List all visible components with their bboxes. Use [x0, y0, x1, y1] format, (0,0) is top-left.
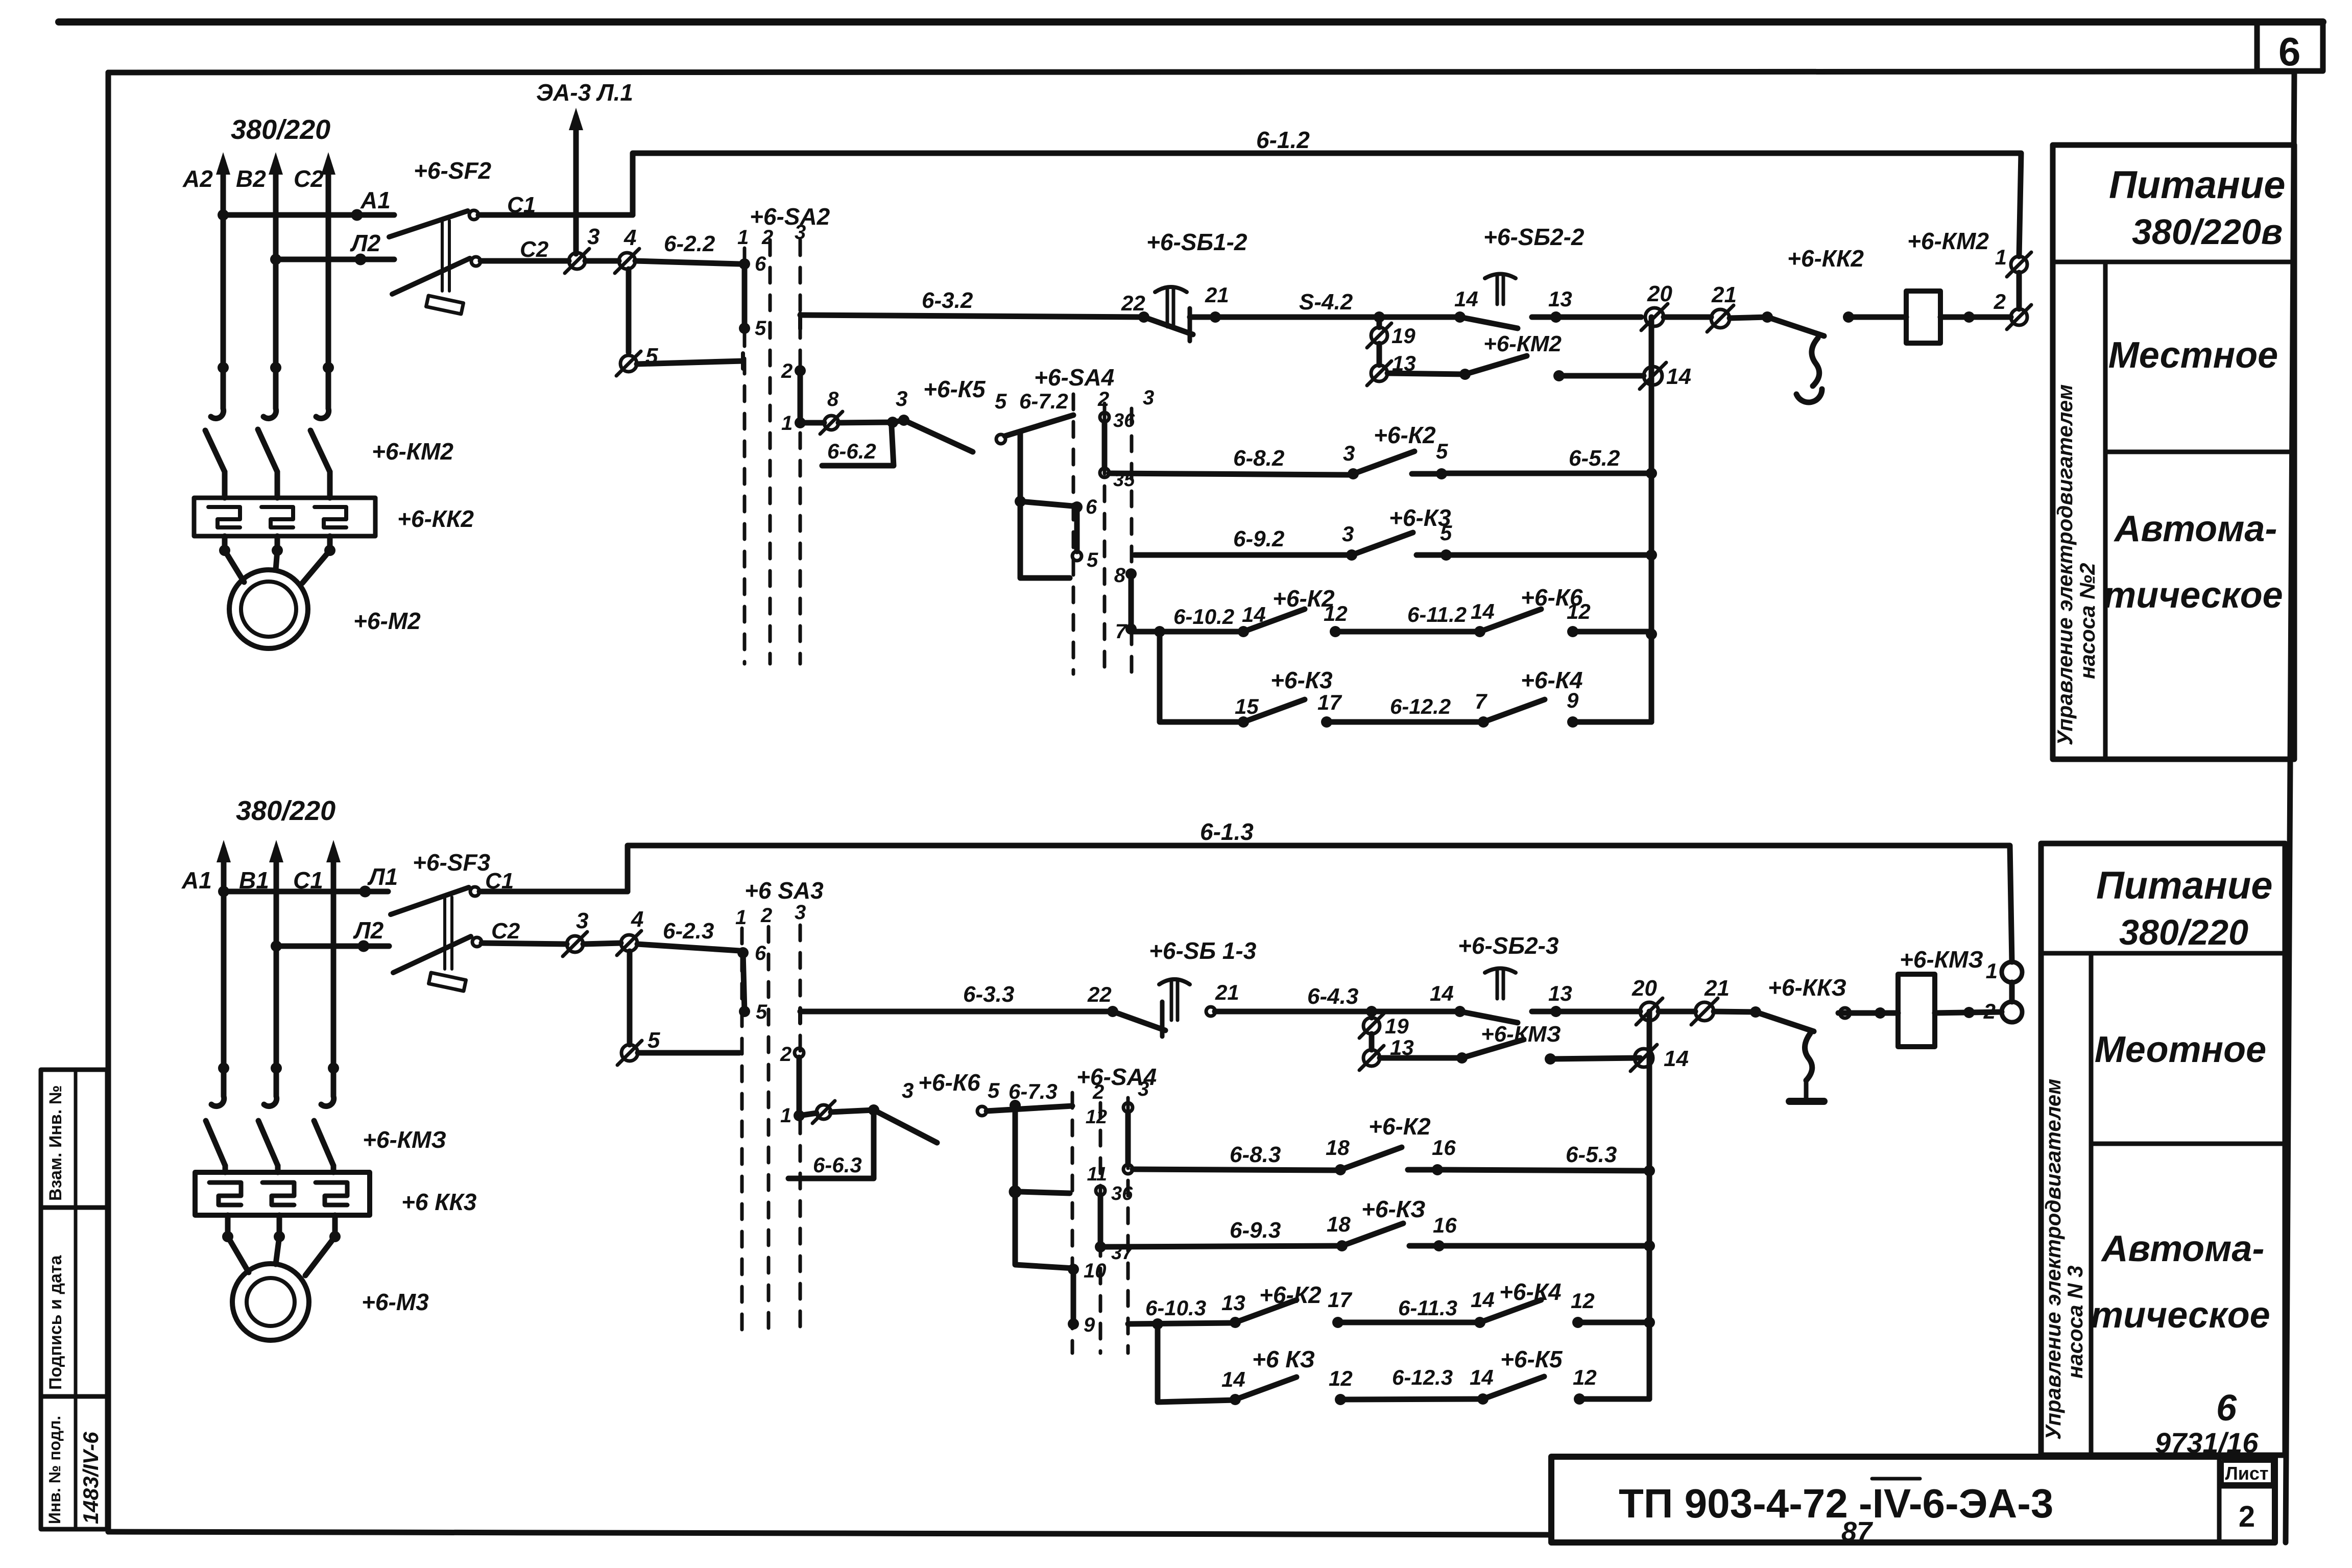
thermal relay heaters +6-KK2 [194, 498, 474, 536]
svg-text:тическое: тическое [2091, 1295, 2270, 1336]
svg-text:+6-КМ2: +6-КМ2 [372, 438, 453, 465]
contactor coil +6-KM3 [1898, 946, 1983, 1047]
start button +6-SB2-3 [1430, 932, 1572, 1023]
svg-text:S-4.2: S-4.2 [1299, 290, 1353, 315]
SA3 contact 6-5 bridge [737, 942, 767, 1023]
svg-text:+6-КМЗ: +6-КМЗ [1481, 1022, 1561, 1047]
relay row 1: wire 6-8.2, contact +6-K2, wire 6-5.2 [1109, 422, 1651, 479]
KM3 auxiliary contact row [1380, 1022, 1640, 1065]
svg-text:+6-SF3: +6-SF3 [413, 849, 491, 876]
svg-text:+6-К2: +6-К2 [1259, 1282, 1322, 1308]
svg-text:3: 3 [576, 908, 588, 933]
phase bus A1 (bottom) [217, 840, 231, 1096]
svg-text:12: 12 [1329, 1366, 1353, 1390]
wire Л2 (tap to breaker pole 2) [270, 230, 394, 265]
svg-text:Лист: Лист [2225, 1463, 2268, 1484]
svg-text:14: 14 [1454, 287, 1478, 311]
svg-text:Л1: Л1 [367, 863, 398, 890]
label Mestnoe (panel 2) [2108, 335, 2278, 376]
svg-text:2: 2 [2239, 1500, 2255, 1533]
svg-text:10: 10 [1084, 1260, 1107, 1282]
wire KK3 to coil KM3 [1838, 1007, 1898, 1019]
svg-text:6-10.3: 6-10.3 [1145, 1296, 1206, 1320]
svg-text:Управление электродвигателем: Управление электродвигателем [2053, 384, 2077, 745]
svg-text:+6 SА3: +6 SА3 [745, 877, 824, 904]
svg-text:Управление электродвигателем: Управление электродвигателем [2041, 1079, 2065, 1440]
svg-text:6-7.3: 6-7.3 [1009, 1079, 1058, 1103]
svg-text:4: 4 [631, 907, 643, 932]
wire S-4.2 [1190, 290, 1460, 323]
svg-text:6-1.3: 6-1.3 [1200, 818, 1254, 845]
svg-text:2: 2 [760, 904, 772, 927]
svg-text:380/220: 380/220 [2119, 912, 2248, 952]
svg-text:5: 5 [988, 1078, 1000, 1102]
relay row 4: contacts +6-K3 and +6-K4, wire 6-12.2 [1160, 632, 1651, 728]
legend panel pump 2 frame [2053, 145, 2294, 759]
svg-text:3: 3 [1143, 387, 1154, 409]
label 380/220 (bottom feed) [236, 795, 335, 826]
svg-text:+6-К6: +6-К6 [918, 1069, 980, 1096]
svg-text:36: 36 [1111, 1183, 1133, 1204]
svg-text:+6-SБ1-2: +6-SБ1-2 [1146, 229, 1247, 255]
svg-text:3: 3 [1343, 441, 1355, 465]
wire 6-2.3 [637, 919, 739, 951]
svg-text:6-7.2: 6-7.2 [1019, 389, 1068, 413]
relay row 1 (bottom): wire 6-8.3, contact +6-K2, wire 6-5.3 [1133, 1113, 1649, 1175]
selector switch +6-SA4 (top) [1034, 364, 1154, 674]
relay row 2 (bottom): wire 6-9.3, contact +6-K3 [1105, 1196, 1649, 1251]
SA3 contact 2-1 bridge [780, 1043, 805, 1127]
svg-text:18: 18 [1327, 1212, 1351, 1236]
wire 20-21 [1664, 315, 1711, 320]
phase bus C1 (bottom) [326, 840, 341, 1096]
svg-text:6-11.3: 6-11.3 [1398, 1296, 1457, 1320]
isolator hooks on phase buses [211, 408, 329, 419]
svg-text:Местное: Местное [2108, 335, 2278, 376]
svg-text:Автома-: Автома- [2114, 509, 2277, 549]
svg-text:1: 1 [780, 1104, 791, 1127]
terminal 1 (bottom right) [1986, 959, 2022, 983]
svg-text:+6-К2: +6-К2 [1369, 1113, 1431, 1140]
wires heaters to motor M3 [222, 1215, 341, 1275]
terminal 20 (bottom) [1631, 976, 1663, 1025]
rotated label Upravlenie elektrodvigatelem nasosa N2 [2053, 384, 2099, 745]
terminal 4 (top) [615, 225, 639, 273]
relay row 4 (bottom): contacts +6-K3 and +6-K5, wire 6-12.3 [1158, 1324, 1649, 1405]
wire to KK2 contact [1730, 317, 1767, 318]
svg-text:17: 17 [1317, 690, 1342, 714]
svg-text:ТП 903-4-72: ТП 903-4-72 [1619, 1481, 1848, 1526]
terminal 1 (top right) [1995, 245, 2031, 277]
svg-text:1: 1 [1995, 245, 2007, 269]
drop from terminal 4 to terminal 5 [626, 269, 632, 352]
drop from terminal 4 to 5 (bottom) [627, 951, 633, 1045]
stamp box Podpis i data [41, 1208, 107, 1396]
svg-text:8: 8 [827, 388, 839, 411]
legend panel pump 3 frame [2041, 843, 2285, 1455]
svg-text:6-9.3: 6-9.3 [1230, 1218, 1281, 1243]
svg-text:21: 21 [1215, 980, 1239, 1004]
relay row 3: wire 6-10.2, contacts +6-K2 and +6-K6, wire 6-11.2 [1131, 584, 1651, 637]
phase bus A2 (vertical with up arrow) [216, 152, 230, 408]
junction dots on phase buses [218, 362, 334, 373]
svg-text:14: 14 [1471, 599, 1495, 623]
wire coil KM3 to terminal 2 (bottom) [1935, 1007, 2002, 1018]
wire between terminals 1-2 [2017, 273, 2022, 309]
wire 6-4.3 [1215, 984, 1460, 1017]
svg-text:5: 5 [995, 389, 1007, 413]
svg-text:-IV-6-ЭА-3: -IV-6-ЭА-3 [1859, 1481, 2053, 1526]
svg-text:+6-К3: +6-К3 [1389, 504, 1451, 531]
svg-text:380/220: 380/220 [236, 795, 335, 826]
svg-text:C2: C2 [294, 165, 324, 192]
phase labels A1 B1 C1 [181, 867, 323, 894]
svg-text:Питание: Питание [2109, 163, 2286, 207]
svg-text:22: 22 [1087, 982, 1112, 1006]
wire between terminals 1-2 (bottom) [2009, 982, 2015, 1002]
svg-text:6-5.2: 6-5.2 [1569, 446, 1620, 471]
svg-text:2: 2 [1092, 1081, 1104, 1103]
svg-text:18: 18 [1326, 1136, 1350, 1160]
contactor coil +6-KM2 [1906, 228, 1989, 343]
rail 6-1.2 [633, 127, 2021, 256]
wire C1 to rail riser (bottom) [479, 889, 628, 895]
SA2 contact 2-1 bridge [781, 360, 806, 435]
svg-text:+6-К3: +6-К3 [1270, 667, 1333, 693]
inner frame top line [108, 71, 2294, 73]
svg-text:Меотное: Меотное [2095, 1029, 2266, 1070]
svg-text:A2: A2 [182, 165, 213, 192]
terminal 3 (bottom) [563, 908, 588, 956]
svg-text:+6-SA4: +6-SA4 [1034, 364, 1114, 391]
svg-text:14: 14 [1666, 364, 1691, 389]
svg-text:5: 5 [756, 1001, 767, 1023]
svg-text:36: 36 [1113, 410, 1135, 431]
svg-text:1: 1 [1986, 959, 1998, 983]
svg-text:+6-SF2: +6-SF2 [414, 157, 492, 184]
terminals 19 and 13 [1367, 317, 1416, 385]
circuit breaker +6-SF2 [389, 157, 549, 314]
relay row 2: wire 6-9.2, contact +6-K3 [1135, 504, 1651, 561]
svg-text:тическое: тическое [2103, 575, 2283, 616]
svg-text:Автома-: Автома- [2101, 1228, 2265, 1269]
svg-text:3: 3 [1342, 522, 1354, 546]
svg-text:А1: А1 [181, 867, 212, 894]
handwritten sheet ref 6 [2216, 1388, 2237, 1429]
svg-text:13: 13 [1548, 981, 1572, 1005]
wire C1 to rail riser [478, 212, 633, 218]
wire C2 to terminal 3 (bottom) [482, 943, 567, 944]
svg-text:6-6.2: 6-6.2 [827, 439, 876, 463]
svg-text:6-12.2: 6-12.2 [1390, 694, 1451, 718]
rail 6-1.3 [628, 818, 2012, 962]
title text TP 903-4-72/87-IV-6-EA-3 [1619, 1479, 2053, 1547]
svg-text:+6-К5: +6-К5 [1500, 1346, 1563, 1372]
outgoing feeder arrow ЭА-3 Л.1 [536, 79, 633, 254]
svg-text:+6 КК3: +6 КК3 [401, 1189, 477, 1215]
stamp box Inv no podl 1483/IV-6 [41, 1396, 107, 1529]
svg-text:21: 21 [1711, 282, 1737, 307]
selector switch +6-SA3 [735, 877, 824, 1338]
svg-text:B2: B2 [236, 165, 266, 192]
interlock contact +6-K6 [799, 1069, 1000, 1143]
wire terminal 5 to SA3 [638, 1050, 739, 1056]
wire Л2 (bottom tap 2) [271, 917, 389, 952]
svg-text:5: 5 [1087, 549, 1098, 571]
SA4 contact 36-35 (line 2) [1100, 410, 1135, 491]
motor +6-M2 [229, 570, 421, 648]
svg-text:Инв. № подл.: Инв. № подл. [45, 1416, 64, 1524]
svg-text:13: 13 [1221, 1291, 1245, 1315]
wire 13 to terminal 20 (bottom) [1556, 1009, 1640, 1015]
svg-text:+6-К2: +6-К2 [1374, 422, 1436, 448]
svg-text:6: 6 [755, 253, 766, 275]
wire KK2 to coil KM2 [1849, 315, 1906, 320]
svg-text:17: 17 [1328, 1288, 1352, 1312]
svg-text:14: 14 [1664, 1046, 1689, 1071]
wire C2 to terminal 3 [481, 258, 569, 264]
wire 6-3.2 (main control rung top) [800, 288, 1144, 329]
svg-text:6-8.3: 6-8.3 [1230, 1142, 1281, 1167]
svg-text:380/220: 380/220 [231, 114, 330, 145]
SA2 contact 6-5 bridge [739, 253, 766, 340]
svg-text:1: 1 [735, 906, 747, 929]
wire to KK3 contact [1714, 1011, 1756, 1012]
label Avtomaticheskoe (panel 2) [2103, 509, 2283, 616]
svg-text:7: 7 [1115, 620, 1127, 643]
svg-text:12: 12 [1571, 1289, 1595, 1313]
terminal 20 (top) [1641, 281, 1672, 330]
svg-text:4: 4 [623, 225, 636, 250]
circuit breaker +6-SF3 [391, 849, 520, 991]
thermal relay contact +6-KK3 [1750, 974, 1846, 1101]
label Avtomaticheskoe (panel 3) [2091, 1228, 2270, 1336]
wire 6-3.3 (main control rung bottom) [800, 982, 1113, 1023]
svg-text:3: 3 [795, 901, 806, 924]
svg-text:ЭА-3 Л.1: ЭА-3 Л.1 [536, 79, 633, 106]
terminal 4 (bottom) [617, 907, 643, 955]
svg-text:2: 2 [1994, 290, 2006, 313]
svg-text:+6-К4: +6-К4 [1499, 1278, 1562, 1305]
label Mestnoe (panel 3) [2095, 1029, 2266, 1070]
svg-text:+6-М3: +6-М3 [362, 1289, 429, 1315]
svg-text:+6-К2: +6-К2 [1273, 585, 1335, 612]
svg-text:6-3.3: 6-3.3 [963, 982, 1014, 1007]
SA4 contact 12-11 (line 3) [1086, 1103, 1133, 1185]
wire A1 (tap to breaker pole 1) [218, 187, 394, 221]
svg-text:2: 2 [1983, 999, 1996, 1023]
svg-text:6-2.2: 6-2.2 [664, 231, 715, 256]
inner frame right edge [2286, 71, 2294, 1542]
svg-text:5: 5 [755, 317, 766, 340]
svg-text:+6-КК2: +6-КК2 [1787, 245, 1864, 272]
svg-text:+6-К6: +6-К6 [1521, 584, 1583, 611]
terminal 21 (bottom) [1691, 976, 1730, 1025]
wire Л1 (bottom tap 1) [218, 863, 398, 897]
svg-text:16: 16 [1432, 1136, 1456, 1160]
svg-text:Подпись и дата: Подпись и дата [46, 1255, 65, 1390]
svg-text:6-10.2: 6-10.2 [1173, 605, 1234, 629]
terminal 14 (bottom) [1630, 1045, 1689, 1071]
SA4 contact 6-5 (line 1) [1071, 496, 1098, 571]
phase bus B2 [269, 152, 283, 408]
svg-text:380/220в: 380/220в [2132, 212, 2283, 252]
KM2 auxiliary contact row [1387, 331, 1644, 381]
svg-text:11: 11 [1087, 1164, 1107, 1185]
svg-text:+6-М2: +6-М2 [353, 608, 421, 634]
terminal 3 (top) [565, 224, 599, 273]
svg-text:3: 3 [1138, 1078, 1149, 1100]
phase labels A2 B2 C2 [182, 165, 324, 192]
inner frame left edge [106, 73, 111, 1532]
wire 6-2.2 [635, 231, 739, 264]
start button +6-SB2-2 [1454, 224, 1585, 328]
svg-text:14: 14 [1470, 1365, 1494, 1389]
svg-text:6-3.2: 6-3.2 [922, 288, 973, 313]
svg-text:6: 6 [1086, 496, 1097, 518]
thermal relay contact +6-KK2 [1762, 245, 1864, 402]
svg-text:A1: A1 [360, 187, 391, 213]
thermal relay heaters +6-KK3 [195, 1172, 477, 1215]
wire from terminal 5 to SA2 [637, 353, 743, 369]
svg-text:6-2.3: 6-2.3 [663, 919, 714, 944]
svg-text:+6-К4: +6-К4 [1521, 667, 1583, 693]
svg-text:+6-КК2: +6-КК2 [397, 505, 474, 532]
terminal 2 (top right) [1994, 290, 2031, 329]
svg-text:насоса N 3: насоса N 3 [2063, 1266, 2087, 1379]
contactor main contacts +6-KM3 [206, 1121, 446, 1172]
svg-text:12: 12 [1573, 1365, 1597, 1389]
svg-text:6-1.2: 6-1.2 [1256, 127, 1310, 153]
svg-text:22: 22 [1121, 291, 1145, 315]
wire stub 6-6.2 [822, 427, 894, 466]
svg-text:+6-SБ2-3: +6-SБ2-3 [1458, 932, 1559, 959]
right bus (top circuit) [1646, 317, 1657, 722]
svg-text:насоса №2: насоса №2 [2075, 563, 2099, 679]
svg-text:2: 2 [780, 1043, 791, 1066]
svg-text:+6-КМЗ: +6-КМЗ [363, 1126, 446, 1153]
svg-text:+6-КМ2: +6-КМ2 [1483, 331, 1562, 356]
svg-text:+6-К5: +6-К5 [923, 376, 986, 402]
svg-text:+6-КМЗ: +6-КМЗ [1900, 946, 1983, 973]
label 380/220 (top feed) [231, 114, 330, 145]
wire 13 to terminal 20 [1556, 315, 1641, 320]
svg-text:5: 5 [1436, 439, 1448, 463]
stop button +6-SB1-2 [1121, 229, 1247, 341]
wire 20-21 (bottom) [1659, 1009, 1695, 1015]
SA4 feeder links [1015, 431, 1072, 578]
svg-text:9: 9 [1084, 1314, 1095, 1336]
svg-text:+6-КЗ: +6-КЗ [1361, 1196, 1426, 1222]
handwritten doc number 9731/16 [2155, 1427, 2259, 1459]
svg-text:3: 3 [896, 387, 907, 411]
svg-text:14: 14 [1430, 981, 1454, 1005]
svg-text:21: 21 [1205, 283, 1229, 307]
label Pitanie 380/220 (panel 3) [2096, 864, 2273, 952]
svg-text:20: 20 [1631, 976, 1657, 1001]
svg-text:6-6.3: 6-6.3 [813, 1153, 862, 1177]
svg-text:7: 7 [1475, 689, 1487, 713]
sheet top edge line [59, 18, 2323, 26]
svg-text:6-12.3: 6-12.3 [1392, 1365, 1453, 1389]
svg-text:13: 13 [1548, 287, 1572, 311]
interlock contact +6-K5 [800, 376, 1007, 452]
title block frame with List 2 [1551, 1457, 2275, 1542]
SA4 contact 8-7 (line 3) [1114, 564, 1137, 643]
selector switch +6-SA2 [737, 203, 830, 664]
svg-text:1: 1 [737, 226, 749, 249]
svg-text:6-5.3: 6-5.3 [1566, 1142, 1617, 1167]
inner frame bottom line [108, 1532, 1551, 1535]
svg-text:8: 8 [1114, 564, 1126, 587]
relay row 3 (bottom): wire 6-10.3, contacts +6-K2 and +6-K4, wire 6-11.3 [1128, 1278, 1649, 1330]
terminals 19 and 13 (bottom) [1359, 1011, 1414, 1070]
svg-text:2: 2 [781, 360, 793, 382]
svg-text:Л2: Л2 [350, 230, 381, 256]
svg-text:6-9.2: 6-9.2 [1233, 526, 1285, 551]
stop button +6-SB1-3 [1087, 937, 1257, 1036]
SA4 feeder links (bottom) [1011, 1105, 1107, 1336]
svg-text:19: 19 [1385, 1014, 1409, 1038]
svg-text:6-8.2: 6-8.2 [1233, 446, 1285, 471]
contactor main contacts +6-KM2 [205, 429, 453, 498]
terminal 21 (top) [1707, 282, 1737, 332]
stamp box Vzam inv [41, 1070, 107, 1208]
junction dots on phase buses (bottom) [218, 1063, 339, 1074]
svg-text:Питание: Питание [2096, 864, 2273, 907]
wire 6-7.3 [987, 1079, 1072, 1111]
svg-text:Л2: Л2 [353, 917, 384, 944]
wire between terminals 3 and 4 [585, 258, 619, 264]
svg-text:+6-SБ 1-3: +6-SБ 1-3 [1149, 937, 1257, 964]
svg-text:3: 3 [587, 224, 599, 249]
motor +6-M3 [232, 1264, 429, 1340]
wire coil KM2 to terminal 2 [1940, 311, 2011, 323]
rotated label Upravlenie elektrodvigatelem nasosa N3 [2041, 1079, 2087, 1440]
svg-text:12: 12 [1086, 1106, 1107, 1128]
wire 6-7.2 [1005, 389, 1073, 436]
selector switch +6-SA4 (bottom) [1072, 1064, 1157, 1353]
isolator hooks (bottom) [211, 1096, 334, 1106]
svg-text:6: 6 [755, 942, 766, 964]
label Pitanie 380/220v (panel 2) [2109, 163, 2286, 252]
svg-text:+6-SБ2-2: +6-SБ2-2 [1483, 224, 1585, 250]
terminal 5 (top) [616, 344, 658, 376]
sheet number box 6 [2257, 22, 2323, 74]
svg-text:6-4.3: 6-4.3 [1307, 984, 1358, 1009]
terminal 5 (bottom) [617, 1028, 660, 1065]
svg-text:С2: С2 [491, 919, 520, 944]
svg-text:Взам. Инв. №: Взам. Инв. № [46, 1085, 65, 1201]
wire stub 6-6.3 [788, 1114, 874, 1178]
svg-text:3: 3 [902, 1078, 914, 1102]
phase bus B1 (bottom) [269, 840, 283, 1096]
svg-text:19: 19 [1391, 324, 1415, 348]
terminal 2 (bottom right) [1983, 999, 2022, 1023]
svg-text:+6-КМ2: +6-КМ2 [1907, 228, 1989, 254]
svg-text:16: 16 [1433, 1213, 1457, 1237]
svg-text:+6-ККЗ: +6-ККЗ [1768, 974, 1846, 1001]
SA4 contact 36-37 (line 2) [1095, 1183, 1134, 1264]
svg-text:+6 КЗ: +6 КЗ [1252, 1346, 1315, 1372]
terminal 14 (top) [1640, 363, 1691, 389]
svg-text:6: 6 [2216, 1388, 2237, 1429]
right bus (bottom circuit) [1644, 1011, 1655, 1399]
svg-text:14: 14 [1471, 1288, 1495, 1312]
svg-text:14: 14 [1221, 1367, 1245, 1391]
svg-text:5: 5 [647, 1028, 660, 1053]
wires heaters to motor M2 [219, 536, 335, 583]
